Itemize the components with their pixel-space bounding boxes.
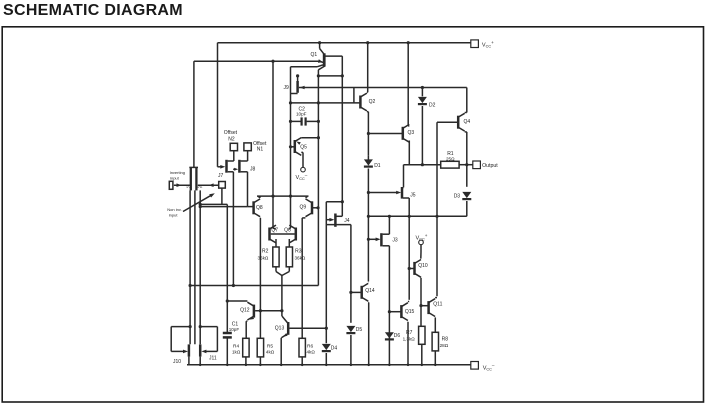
svg-text:1,3kΩ: 1,3kΩ [403,336,416,341]
svg-text:Q13: Q13 [275,325,285,331]
svg-text:Q10: Q10 [418,263,428,269]
svg-text:1kΩ: 1kΩ [232,350,241,355]
svg-text:J5: J5 [410,192,416,198]
svg-text:J8: J8 [250,167,256,173]
svg-text:VCC–: VCC– [483,363,495,371]
svg-text:10pF: 10pF [296,112,307,117]
svg-text:Q12: Q12 [240,308,250,314]
svg-text:Q6: Q6 [284,228,291,234]
svg-text:Q15: Q15 [405,309,415,315]
svg-text:36kΩ: 36kΩ [295,256,306,261]
svg-text:D6: D6 [394,333,401,339]
svg-text:input: input [170,176,180,181]
svg-text:VCC–: VCC– [296,173,308,181]
svg-text:J7: J7 [218,173,224,179]
svg-text:Q1: Q1 [311,52,318,58]
svg-text:J9: J9 [284,85,290,91]
svg-text:10pF: 10pF [229,327,240,332]
svg-text:28Ω: 28Ω [440,343,449,348]
svg-text:Output: Output [482,163,498,169]
svg-text:Non inv.: Non inv. [167,207,181,212]
svg-text:J3: J3 [392,238,398,244]
svg-text:J4: J4 [344,218,350,224]
svg-text:Offset: Offset [224,130,238,136]
svg-text:Q11: Q11 [433,302,442,308]
svg-text:N1: N1 [257,147,264,153]
svg-text:Q7: Q7 [271,228,278,234]
svg-text:Q3: Q3 [408,130,415,136]
svg-text:36kΩ: 36kΩ [258,256,269,261]
svg-text:R7: R7 [406,330,413,336]
svg-text:D1: D1 [374,163,381,169]
svg-text:input: input [169,213,179,218]
svg-text:Q4: Q4 [464,119,471,125]
svg-text:Q14: Q14 [365,288,375,294]
svg-text:4kΩ: 4kΩ [307,350,316,355]
svg-text:J10: J10 [173,359,181,365]
svg-text:D2: D2 [429,102,436,108]
svg-text:VCC+: VCC+ [482,40,494,49]
svg-text:Inverting: Inverting [170,170,185,175]
svg-text:D4: D4 [331,345,338,351]
svg-text:D5: D5 [356,327,363,333]
svg-text:R3: R3 [295,249,302,255]
svg-text:VCC+: VCC+ [416,233,428,242]
svg-text:N2: N2 [228,136,235,142]
svg-text:D3: D3 [454,194,461,200]
svg-text:Q9: Q9 [300,205,307,211]
svg-text:R8: R8 [442,336,449,342]
svg-text:25Ω: 25Ω [446,157,455,162]
svg-text:Q5: Q5 [300,144,307,150]
svg-text:J11: J11 [209,356,217,362]
svg-text:Q2: Q2 [369,99,376,105]
svg-text:R2: R2 [262,249,269,255]
svg-text:Q8: Q8 [256,205,263,211]
svg-text:4kΩ: 4kΩ [266,350,275,355]
